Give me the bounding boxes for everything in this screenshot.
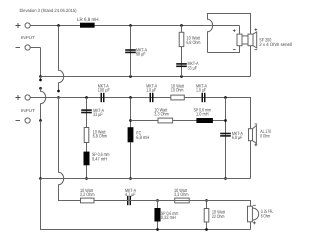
label L1 [77, 17, 99, 23]
label R4 [154, 108, 169, 118]
svg-text:LR 6,8 mH: LR 6,8 mH [77, 17, 99, 23]
junction rail4-R7 [205, 199, 208, 202]
label C8 [125, 188, 137, 198]
junction rail4-L5 [156, 199, 159, 202]
capacitor C1 MKT-A 68 uF [125, 49, 136, 51]
junction rail2-FC [129, 96, 132, 99]
terminal dot A2 [39, 87, 42, 90]
inductor L5 SP 0,6 mm 0,33 mH [154, 208, 160, 222]
speaker SF200 bridge box [242, 36, 248, 44]
minus sign G25FFL [253, 204, 256, 206]
resistor R5 10 Watt 2,2 Ohm [81, 198, 95, 203]
junction x225-rail3 [224, 177, 227, 180]
svg-text:6,8 Ohm: 6,8 Ohm [93, 133, 108, 139]
junction x86-rail3 [85, 177, 88, 180]
junction A-rail3 [39, 177, 42, 180]
resistor R4 10 Watt 3,3 Ohm [158, 118, 173, 123]
capacitor C8 MKT-A 4,7 uF [127, 196, 129, 205]
junction x130-rail3 [129, 177, 132, 180]
junction rail1-R1 [180, 24, 183, 27]
svg-text:68 µF: 68 µF [136, 51, 146, 57]
wire branch x225 [225, 98, 227, 179]
wire branch C1 [130, 26, 132, 77]
label L4 [194, 108, 212, 118]
capacitor C4 MKT-A 1,0 uF [150, 93, 152, 102]
plus sign IN1+ [16, 23, 21, 28]
terminal dot A1 [39, 79, 42, 82]
inductor L2 SP 0,6 mm 0,47 mH [84, 152, 90, 166]
wire branch R1C2 [181, 26, 183, 77]
label L3 [136, 130, 149, 141]
svg-text:6,8 µF: 6,8 µF [232, 135, 243, 141]
junction R7-rail5 [205, 228, 208, 231]
label G 25 FFL [261, 209, 274, 220]
capacitor C2 MKT-A 33 uF [176, 63, 187, 65]
label AL 170 [260, 129, 271, 140]
resistor R6 10 Watt 3,3 Ohm [175, 198, 190, 203]
wire G25FFL below [250, 222, 252, 230]
wire rail4 to tweeter [94, 201, 251, 207]
svg-text:33 µF: 33 µF [93, 112, 103, 118]
resistor R1 10 Watt 6,8 Ohm [179, 32, 184, 46]
plus sign G25FFL [253, 221, 256, 224]
svg-text:2 x 4 Ohm seriell: 2 x 4 Ohm seriell [259, 42, 292, 48]
label C3 [98, 84, 110, 94]
junction A-rail76 [39, 75, 42, 78]
wire line A hop over rail2 [41, 88, 46, 120]
svg-text:Elevation 3 (Stand 24.06.2015): Elevation 3 (Stand 24.06.2015) [20, 8, 77, 13]
svg-text:1,0 mH: 1,0 mH [196, 112, 209, 118]
junction B-rail1 [57, 24, 60, 27]
svg-text:6,8 mH: 6,8 mH [136, 135, 149, 141]
svg-text:3,3 Ohm: 3,3 Ohm [174, 192, 189, 198]
label C1 [136, 47, 148, 57]
wire SF200 feed down [239, 26, 241, 35]
speaker SF200 coil rect A [237, 34, 242, 46]
label INPUT (top) [21, 35, 35, 40]
terminal dot B1 [57, 90, 60, 93]
speaker SF200 cone [253, 32, 257, 48]
minus sign SF200 left [233, 48, 236, 50]
minus sign IN2- [16, 120, 21, 122]
junction L5-rail5 [156, 228, 159, 231]
plus sign SF200 left [233, 29, 236, 32]
plus sign IN2+ [16, 95, 21, 100]
speaker SF200 coil rect B [248, 34, 253, 46]
label R3 [93, 129, 108, 139]
label L2 [92, 152, 110, 163]
wire SF200 return to rail76 [250, 46, 252, 77]
junction x130-row [129, 119, 132, 122]
wire rail1 IN1+ to SF200 [30, 25, 239, 27]
capacitor C5 MKT-A 1,0 uF [202, 93, 204, 102]
svg-text:3,3 Ohm: 3,3 Ohm [154, 112, 169, 118]
svg-text:22 Ohm: 22 Ohm [212, 214, 225, 220]
svg-text:4,7 µF: 4,7 µF [125, 192, 136, 198]
minus sign SF200 right [254, 49, 257, 51]
label C2 [188, 61, 200, 71]
wire branch x86 [86, 98, 88, 179]
svg-text:6,8 Ohm: 6,8 Ohm [186, 40, 200, 46]
capacitor C3 MKT-A 100 uF [101, 93, 103, 102]
input terminal IN2- [25, 118, 30, 123]
junction x225-row [224, 119, 227, 122]
inductor L3 FC 6,8 mH [128, 127, 134, 142]
plus sign AL170 [255, 143, 258, 146]
wire branch L5 [157, 201, 159, 230]
input terminal IN2+ [25, 95, 30, 100]
junction rail2-x86 [85, 96, 88, 99]
svg-text:INPUT: INPUT [21, 108, 35, 113]
svg-text:33 µF: 33 µF [188, 65, 198, 71]
junction rail76-C1 [129, 75, 132, 78]
junction rail76-R1C2 [180, 75, 183, 78]
label R2 [171, 84, 185, 94]
svg-text:1,0 µF: 1,0 µF [196, 88, 206, 94]
label L5 [161, 211, 179, 221]
label C6 [93, 108, 105, 118]
svg-text:0,33 mH: 0,33 mH [161, 215, 176, 221]
wire branch FC [130, 98, 132, 179]
svg-text:2,2 Ohm: 2,2 Ohm [80, 192, 95, 198]
svg-text:10 Ohm: 10 Ohm [171, 88, 184, 94]
svg-text:1,0 µF: 1,0 µF [146, 88, 156, 94]
capacitor C7 MKT-A 6,8 uF [220, 133, 231, 135]
inductor L1 LR 6,8 mH [80, 23, 95, 28]
wire rail2 IN2+ to AL170 [30, 98, 250, 129]
label C5 [196, 84, 208, 94]
wire line A lower [40, 121, 42, 179]
speaker AL170 rect [249, 129, 253, 141]
wire AL170 below [250, 141, 252, 179]
label C4 [146, 84, 158, 94]
wire rail y76.5 [41, 76, 251, 78]
minus sign AL170 [255, 123, 258, 125]
wire IN1- horizontal [30, 47, 40, 49]
inductor L4 SP 0,6 mm 1,0 mH [196, 118, 213, 123]
wire rail3 [41, 178, 251, 180]
wire SF200 loop up with hop over rail1 [208, 14, 251, 53]
label R6 [174, 188, 189, 198]
label SF 200 [259, 37, 292, 48]
label R5 [80, 188, 95, 198]
resistor R3 10 Watt 6,8 Ohm [84, 128, 89, 143]
svg-text:0,47 mH: 0,47 mH [92, 157, 107, 163]
plus sign SF200 right [254, 28, 257, 31]
wire line B hop over rail76 [59, 26, 64, 92]
wire line A to bottom rail [41, 179, 251, 230]
wire branch R7 [206, 201, 208, 230]
label R7 [212, 210, 226, 220]
svg-text:8 Ohm: 8 Ohm [260, 134, 270, 140]
label INPUT (bottom) [21, 108, 35, 113]
resistor R7 10 Watt 22 Ohm [204, 209, 209, 223]
wire SF200 coil bottom loop [208, 46, 240, 53]
speaker G25FFL dome [252, 208, 258, 220]
label C7 [232, 131, 244, 141]
input terminal IN1+ [25, 23, 30, 28]
minus sign IN1- [16, 47, 21, 49]
wire row y120.5 [131, 120, 226, 122]
junction A-IN2- [39, 119, 42, 122]
junction rail2-x225 [224, 96, 227, 99]
speaker G25FFL rect [248, 206, 253, 222]
wire line B hop over rail3 to rail4 [59, 98, 81, 201]
wire line A upper [40, 48, 42, 77]
svg-text:100 µF: 100 µF [98, 88, 110, 94]
label R1 [186, 35, 200, 46]
wire terminal stub A [40, 77, 42, 81]
svg-text:INPUT: INPUT [21, 35, 35, 40]
resistor R2 10 Watt 10 Ohm [171, 95, 185, 100]
title [20, 8, 77, 13]
speaker AL170 cone [253, 126, 257, 144]
capacitor C6 MKT-A 33 uF [81, 109, 92, 111]
junction B-rail2 [57, 96, 60, 99]
junction rail1-C1 [129, 24, 132, 27]
input terminal IN1- [25, 45, 30, 50]
svg-text:8 Ohm: 8 Ohm [261, 214, 271, 220]
